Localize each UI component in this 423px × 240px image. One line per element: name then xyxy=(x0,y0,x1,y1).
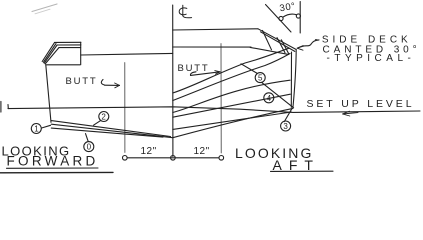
svg-text:FORWARD: FORWARD xyxy=(7,153,99,168)
bottom edge line xyxy=(0,171,113,173)
forward underline xyxy=(7,167,99,169)
centerline symbol CL xyxy=(179,5,191,18)
level line left end tick xyxy=(7,105,9,109)
svg-text:AFT: AFT xyxy=(273,157,320,173)
30 deg dim vertical leg xyxy=(299,2,301,34)
svg-text:5: 5 xyxy=(258,74,263,83)
dimension line xyxy=(127,157,219,159)
deck line aft (top) xyxy=(173,29,258,30)
section line 5 lower aft xyxy=(173,80,290,112)
svg-text:BUTT: BUTT xyxy=(178,63,210,74)
balloon 2 xyxy=(99,112,109,122)
bottom line station 1 forward xyxy=(51,121,170,137)
section curve mid aft xyxy=(173,54,290,101)
left margin mark xyxy=(0,102,2,113)
svg-text:BUTT: BUTT xyxy=(66,76,98,87)
svg-text:1: 1 xyxy=(34,125,39,134)
gunwale canted laminate forward xyxy=(42,42,54,61)
balloon 5 xyxy=(255,73,265,83)
svg-text:3: 3 xyxy=(283,122,288,131)
svg-text:0: 0 xyxy=(87,143,92,152)
30 deg dim angled leg xyxy=(266,5,292,33)
svg-text:-TYPICAL-: -TYPICAL- xyxy=(327,53,416,64)
svg-text:12": 12" xyxy=(194,146,210,157)
balloon 4 xyxy=(264,93,274,103)
hull bottom keel to chine aft xyxy=(173,108,293,137)
diagonal line to chine xyxy=(262,82,294,108)
gunwale right edge forward xyxy=(80,42,82,65)
side deck plank aft inner top xyxy=(261,32,295,52)
centerline xyxy=(172,5,174,157)
leader balloon 1 xyxy=(42,125,51,128)
side deck plank aft outer top xyxy=(258,29,296,50)
hull side aft inner xyxy=(290,52,292,107)
section line 4 aft xyxy=(173,94,290,117)
svg-text:4: 4 xyxy=(267,94,272,103)
leader balloon 3 xyxy=(284,109,292,122)
sheer line to centerline forward xyxy=(81,53,173,55)
aft underline xyxy=(271,170,334,172)
side deck note leader xyxy=(297,40,319,48)
balloon 0 xyxy=(84,142,94,152)
gunwale bottom edge forward xyxy=(46,64,80,66)
BUTT leader left xyxy=(101,80,104,86)
svg-text:12": 12" xyxy=(141,146,157,157)
BUTT leader right xyxy=(190,72,196,76)
balloon 1 xyxy=(31,124,41,134)
dimension circle center xyxy=(171,156,176,161)
section line 3 aft xyxy=(173,112,292,129)
leader balloon 2 xyxy=(94,121,101,126)
bottom line station 0 forward xyxy=(51,128,163,137)
dimension circle left xyxy=(123,156,128,161)
balloon 3 xyxy=(281,121,291,131)
deck line aft (lower) xyxy=(173,46,251,48)
butt line right xyxy=(220,44,222,154)
stray pencil mark top left xyxy=(32,4,57,12)
section curve 5 upper aft xyxy=(173,48,289,93)
side deck lamination line c xyxy=(281,40,289,54)
side deck lamination line a xyxy=(263,31,272,50)
leader balloon 0 xyxy=(86,134,89,142)
bottom line station 2 forward xyxy=(51,124,173,138)
hull side aft outer xyxy=(293,50,296,109)
dimension circle right xyxy=(219,156,224,161)
set up level line (horizontal across) xyxy=(8,107,420,113)
set up level underline arrow xyxy=(343,111,359,116)
svg-text:SET UP LEVEL: SET UP LEVEL xyxy=(307,98,415,110)
hull side forward xyxy=(46,65,51,122)
svg-text:2: 2 xyxy=(101,113,106,122)
leader balloon 5 xyxy=(241,64,257,73)
side deck lamination line b xyxy=(277,38,285,53)
30 deg dim balloon b xyxy=(296,14,300,18)
svg-text:30°: 30° xyxy=(279,1,297,15)
butt line left xyxy=(124,63,126,153)
30 deg dim balloon a xyxy=(279,16,283,20)
side deck plank aft bottom edge xyxy=(250,47,288,54)
gunwale plank forward (top lines) xyxy=(55,41,81,43)
side deck leader arrowhead xyxy=(297,46,303,51)
30 deg dim arc xyxy=(283,14,297,17)
